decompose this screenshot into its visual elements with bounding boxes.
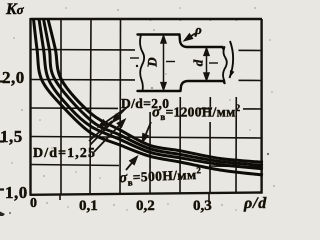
- plot border: [30, 18, 263, 195]
- bottom shoulder + fillet + small bottom: [181, 81, 225, 91]
- d dimension arrow: [204, 48, 209, 80]
- grid horizontal lines: [31, 50, 262, 168]
- x tick label 0,1: [79, 198, 98, 215]
- curve D (sigma_b=1200, D/d=2.0): [48, 19, 263, 162]
- paper background: [0, 0, 281, 216]
- curve C: [44, 19, 264, 166]
- bottom-left corner smudge: [0, 212, 5, 217]
- x tick label 0,3: [193, 198, 212, 215]
- big section bottom: [138, 90, 181, 92]
- leader lines with arrowheads: [89, 106, 151, 170]
- y tick label 1,5: [0, 127, 23, 147]
- left wavy break line: [140, 35, 144, 92]
- leader from D/d=2,0 (long): [90, 107, 127, 145]
- axis title K_sigma: [6, 1, 24, 19]
- shoulder + fillet + small top: [180, 35, 224, 50]
- inset dimension label d: [190, 60, 206, 67]
- y tick label 1,0: [5, 183, 28, 203]
- leader from D/d=1,25 up-right: [94, 121, 124, 153]
- curve label sigma_b=1200 N/mm2: [152, 103, 240, 122]
- inset fillet radius label rho: [195, 22, 202, 38]
- leader from sigma=500: [126, 158, 136, 170]
- left margin tick marks: [0, 82, 4, 190]
- small axis ticks below x-axis: [60, 194, 209, 201]
- curve label sigma_b=500 N/mm2: [119, 165, 202, 188]
- x tick label 0,2: [136, 198, 155, 215]
- centerline dashes: [130, 58, 218, 63]
- scan speckles: [11, 7, 275, 211]
- inset dimension label D: [145, 57, 161, 66]
- x tick label 0: [30, 196, 37, 212]
- leader from D/d=1,25 up-right (second): [89, 121, 112, 141]
- y tick label 2,0: [2, 68, 25, 88]
- leader from D/d=2,0 (short): [100, 106, 129, 126]
- grid vertical lines: [61, 19, 237, 194]
- right wavy break line: [223, 47, 227, 81]
- curve label D/d=1,25: [33, 146, 96, 162]
- curve label D/d=2,0: [121, 96, 169, 112]
- rho leader arrow: [185, 34, 195, 41]
- leader from sigma=1200: [143, 122, 151, 141]
- curve A (sigma_b=500, D/d=1.25): [34, 19, 264, 175]
- curve B: [39, 19, 263, 169]
- inset white box covering grid: [135, 21, 239, 98]
- moment arrow at right end: [230, 41, 234, 78]
- D dimension arrow: [161, 36, 166, 90]
- x-axis title rho/d: [244, 195, 267, 213]
- big section top: [138, 33, 180, 35]
